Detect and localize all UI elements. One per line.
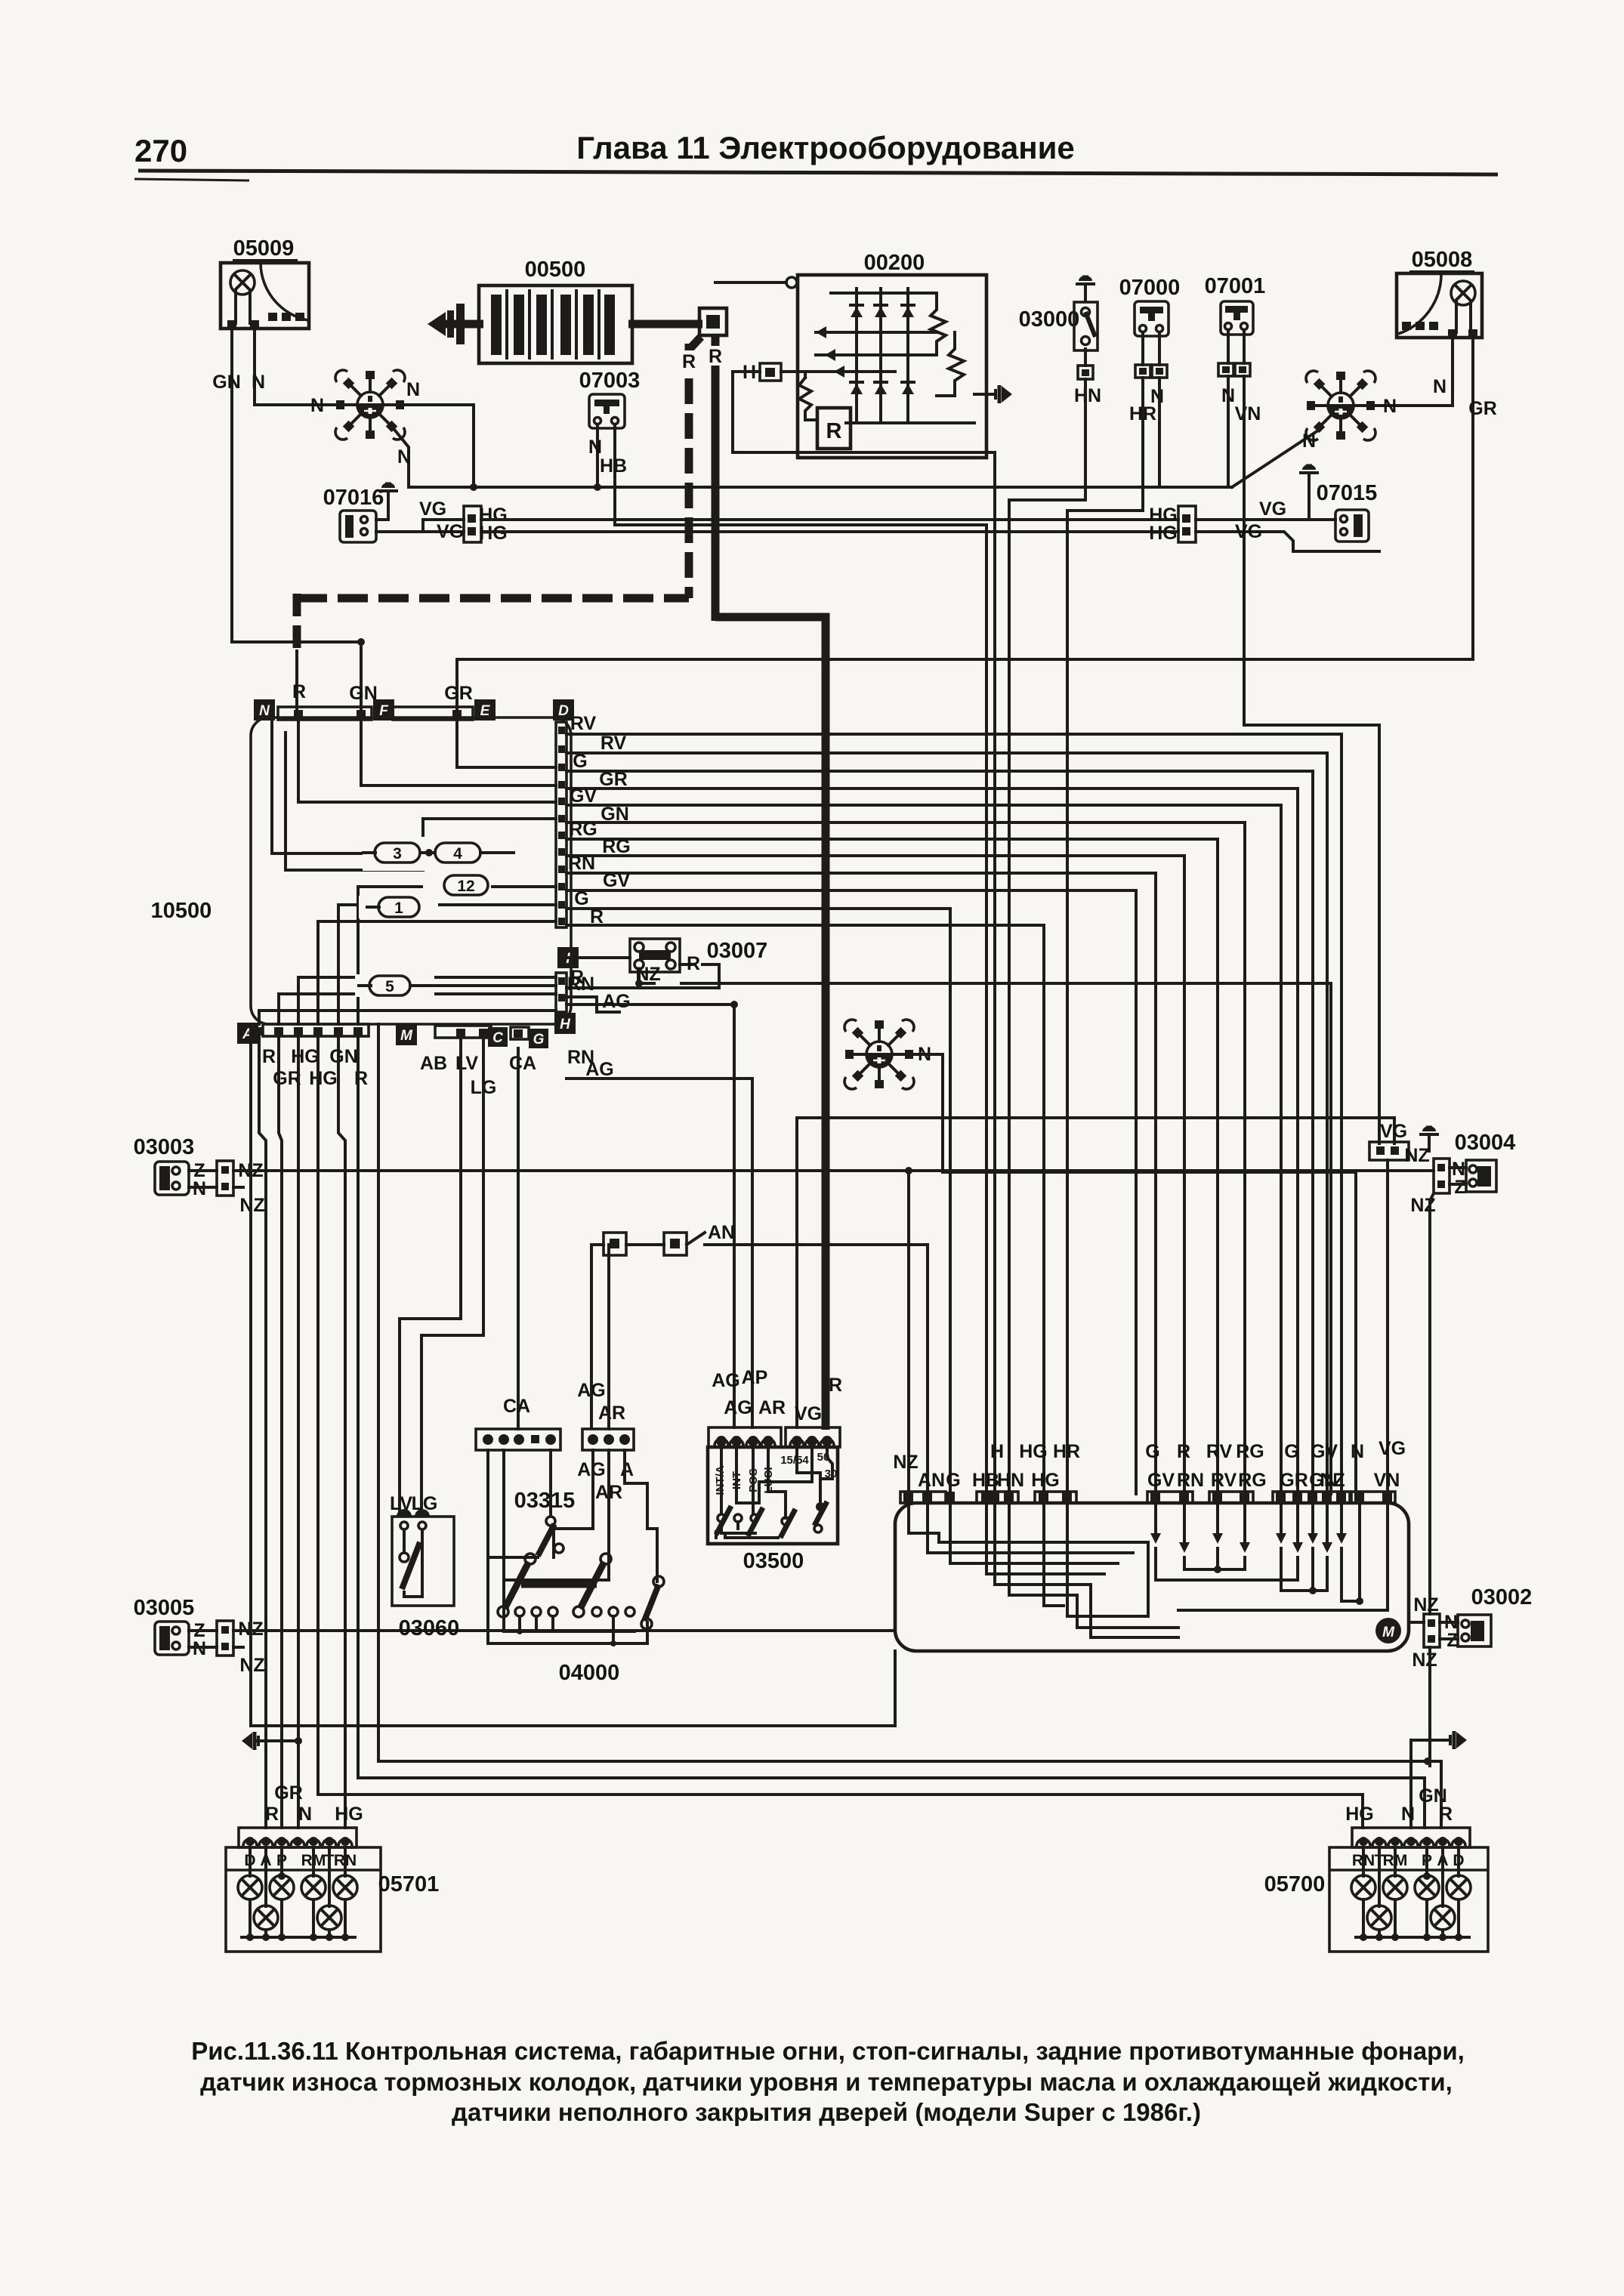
internal wires from top pins	[298, 722, 556, 802]
svg-text:LV: LV	[455, 1053, 478, 1074]
svg-text:N: N	[310, 395, 324, 416]
svg-text:R: R	[709, 346, 722, 367]
svg-text:HG: HG	[1345, 1804, 1374, 1825]
svg-text:03000: 03000	[1019, 307, 1080, 332]
svg-text:03060: 03060	[399, 1616, 460, 1640]
VN wire down right to VG connector and module	[1244, 376, 1379, 1143]
svg-text:AN: AN	[708, 1222, 735, 1243]
main box	[708, 1447, 838, 1544]
svg-text:HG: HG	[335, 1804, 363, 1825]
svg-text:R: R	[262, 1046, 276, 1067]
long horizontal NZ to module corner	[251, 1024, 895, 1726]
svg-text:15/54: 15/54	[780, 1454, 809, 1467]
thick dashed R wire down-left	[690, 337, 701, 348]
svg-text:HG: HG	[1019, 1441, 1048, 1462]
svg-text:03004: 03004	[1455, 1131, 1516, 1155]
module internals: left group nested wires	[909, 1503, 1148, 1542]
long HG wires across page	[481, 518, 1178, 521]
wire GR	[567, 788, 1298, 1494]
box outline	[251, 717, 571, 1024]
wire R to module HG	[567, 925, 1044, 1494]
svg-text:07003: 07003	[579, 369, 641, 393]
svg-text:Глава 11 Электрооборудование: Глава 11 Электрооборудование	[576, 130, 1075, 165]
thick R wire bend right and long drop to 03500	[715, 617, 826, 1430]
svg-text:VN: VN	[1235, 403, 1261, 424]
svg-text:VG: VG	[1235, 521, 1262, 542]
svg-text:R: R	[687, 953, 700, 974]
svg-text:03005: 03005	[134, 1596, 195, 1620]
svg-text:AN: AN	[918, 1470, 945, 1491]
07001	[1205, 274, 1266, 424]
svg-text:3: 3	[393, 845, 402, 863]
svg-text:AG: AG	[577, 1380, 606, 1401]
svg-text:03007: 03007	[707, 939, 768, 963]
N wire to 05700 with chassis ground right	[1409, 1740, 1413, 1828]
07003 HB wire to module HB pin	[615, 424, 986, 1494]
svg-text:GV: GV	[570, 785, 597, 807]
svg-text:VG: VG	[1380, 1121, 1407, 1142]
svg-text:07000: 07000	[1119, 276, 1181, 300]
svg-text:GV: GV	[603, 870, 630, 891]
svg-text:RN: RN	[567, 1047, 594, 1068]
svg-text:AB: AB	[420, 1053, 447, 1074]
svg-text:HB: HB	[600, 455, 627, 477]
svg-text:N: N	[588, 437, 602, 458]
speed sensor cone symbol	[428, 304, 465, 344]
wire GN long to 05700	[358, 1036, 1425, 1828]
wire GV	[567, 805, 1281, 1494]
svg-text:R: R	[829, 1375, 842, 1396]
AG/AR connector	[577, 1380, 634, 1503]
svg-text:GN: GN	[601, 804, 629, 825]
07016 component	[323, 486, 384, 542]
svg-text:VG: VG	[1259, 498, 1286, 520]
R loop right of 03007	[680, 963, 695, 966]
field diodes left	[816, 331, 937, 334]
svg-text:G: G	[946, 1470, 960, 1491]
VG wires from 07016 to HG connector	[376, 520, 464, 532]
svg-text:GR: GR	[1280, 1470, 1308, 1491]
svg-text:00200: 00200	[864, 251, 925, 275]
HG/HG inline connector right + VG wires to 07015	[1178, 506, 1196, 542]
alternator 00200	[715, 251, 1012, 458]
right pin strip	[556, 722, 567, 927]
svg-text:G: G	[574, 888, 588, 909]
lamp (instrument cluster symbol) left	[335, 370, 405, 440]
wires below AG/AR into 04000	[591, 1450, 594, 1529]
connecting lines inside right part	[1184, 1557, 1245, 1569]
svg-text:GV: GV	[1311, 1441, 1338, 1462]
HG/HG inline connector left	[464, 506, 481, 542]
svg-text:AG: AG	[712, 1370, 740, 1391]
03005 brake pad sensor	[134, 1596, 265, 1676]
N wire from middle lamp to module	[915, 1054, 1356, 1494]
thick wire through 00500	[437, 320, 483, 329]
relay 03007	[567, 939, 767, 972]
H lever cluster	[505, 1562, 529, 1609]
svg-text:RG: RG	[1236, 1441, 1264, 1462]
thick solid R wire down	[712, 335, 720, 621]
svg-text:R: R	[1177, 1441, 1190, 1462]
svg-text:NZ: NZ	[1404, 1145, 1429, 1166]
svg-text:N: N	[406, 379, 420, 400]
instrument cluster 00500	[479, 258, 632, 363]
svg-text:5: 5	[385, 978, 394, 995]
svg-text:R: R	[590, 906, 604, 927]
NZ wire from 03005 to module left edge	[233, 1629, 895, 1632]
wire GN from 05009 down and right to 10500 F pin	[232, 329, 361, 719]
thick dashed bus	[297, 594, 689, 603]
wire N to 05701 with ground tee	[297, 1036, 300, 1828]
wire GR to 05701	[279, 1036, 282, 1828]
lamp symbol right	[1306, 371, 1375, 440]
switch 03000	[1019, 276, 1101, 406]
svg-text:NZ: NZ	[1413, 1594, 1438, 1616]
wire from lamp right to N bus	[406, 405, 474, 487]
svg-text:HB: HB	[972, 1470, 999, 1491]
svg-text:N: N	[1401, 1804, 1415, 1825]
internal nested wires from bottom pins	[259, 1011, 556, 1024]
internal contacts	[720, 1447, 723, 1514]
ground above 07016	[378, 483, 398, 508]
svg-text:GV: GV	[1147, 1470, 1175, 1491]
fuse ovals	[355, 837, 556, 997]
svg-text:07016: 07016	[323, 486, 384, 510]
svg-text:RV: RV	[1206, 1441, 1233, 1462]
wire R to 05701	[259, 1036, 266, 1828]
svg-text:RN: RN	[568, 853, 595, 874]
svg-text:N: N	[397, 446, 411, 468]
GR wire from 05008 down and far left to 10500 E pin	[457, 338, 1473, 719]
zigzag resistors right	[931, 293, 946, 355]
diodes up	[851, 307, 863, 317]
wire RG 2	[567, 856, 1184, 1494]
svg-text:G: G	[1145, 1441, 1159, 1462]
svg-text:GN: GN	[349, 683, 378, 704]
svg-text:HN: HN	[1074, 385, 1101, 406]
svg-text:GR: GR	[1468, 398, 1497, 419]
ignition switch 03500	[708, 1367, 842, 1573]
NZ wire from module to connector and down	[1409, 1621, 1424, 1624]
svg-text:Рис.11.36.11 Контрольная сист: Рис.11.36.11 Контрольная система, габари…	[191, 2037, 1465, 2065]
rear lamp cluster 05701	[226, 1828, 439, 1952]
svg-text:RN: RN	[567, 974, 594, 995]
NZ wire from 03007 to module NZ pin	[639, 969, 654, 983]
internal: three phase verticals	[855, 289, 858, 423]
wire N from 05009 to lamp	[255, 329, 335, 405]
svg-text:R: R	[1439, 1804, 1453, 1825]
module top pins: left group	[903, 1492, 1072, 1503]
VG vertical down to 03500	[795, 1118, 798, 1427]
svg-text:RV: RV	[1211, 1470, 1237, 1491]
svg-text:G: G	[1284, 1441, 1298, 1462]
svg-text:03315: 03315	[514, 1489, 576, 1513]
svg-text:RV: RV	[601, 733, 627, 754]
07001 N wire to bus	[1227, 376, 1230, 487]
svg-text:GR: GR	[444, 683, 473, 704]
NZ drop to module NZ pin	[907, 1171, 910, 1494]
HN wire to module	[1009, 379, 1085, 1494]
connector strips on top	[709, 1427, 781, 1447]
wire GN	[567, 822, 1245, 1494]
svg-text:R: R	[682, 351, 696, 372]
svg-text:AP: AP	[742, 1367, 768, 1388]
door switch block 04000	[488, 1529, 664, 1685]
svg-text:03002: 03002	[1471, 1585, 1533, 1609]
rear lamp cluster 05700	[1264, 1828, 1488, 1952]
svg-text:RG: RG	[602, 836, 631, 857]
03003 brake pad sensor	[134, 1135, 265, 1216]
svg-text:F: F	[379, 703, 389, 719]
CA wires from 10500 down to CA connector	[517, 1048, 520, 1429]
svg-text:R: R	[354, 1068, 368, 1089]
svg-text:12: 12	[457, 878, 474, 895]
AG wire lower from strip H to 03500	[567, 1079, 752, 1427]
svg-text:N: N	[298, 1804, 312, 1825]
svg-text:NZ: NZ	[893, 1452, 918, 1473]
regulator box R	[817, 408, 851, 449]
ground at right of 00200	[974, 393, 996, 396]
svg-text:AG: AG	[602, 991, 631, 1012]
07003 connector	[579, 369, 641, 428]
svg-text:Z: Z	[1454, 1177, 1465, 1198]
svg-text:HN: HN	[997, 1470, 1024, 1491]
svg-text:GN: GN	[212, 372, 241, 393]
wire diagonal from lamp lower-right to N bus	[392, 427, 409, 487]
svg-text:05700: 05700	[1264, 1872, 1326, 1896]
svg-text:RN: RN	[1177, 1470, 1204, 1491]
svg-text:AR: AR	[758, 1397, 786, 1418]
svg-text:датчик износа тормозных колодо: датчик износа тормозных колодок, датчики…	[200, 2068, 1453, 2096]
svg-text:07015: 07015	[1317, 481, 1378, 505]
headlamp unit 05008	[1397, 248, 1482, 338]
07003 N wire	[596, 424, 599, 487]
wire G to module	[567, 909, 950, 1494]
svg-text:N: N	[1433, 376, 1446, 397]
svg-text:N: N	[259, 703, 270, 719]
oil level switch 03060	[390, 1493, 459, 1640]
module internals: right group arrows	[1150, 1503, 1388, 1610]
svg-text:A: A	[620, 1459, 634, 1480]
wire RV 2	[567, 753, 1327, 1494]
svg-text:05701: 05701	[378, 1872, 440, 1896]
wire RG	[567, 839, 1218, 1494]
svg-text:C: C	[492, 1030, 503, 1046]
svg-text:M: M	[400, 1028, 413, 1044]
motor symbol M	[1375, 1618, 1401, 1643]
VG inline connector right	[1369, 1142, 1409, 1160]
svg-text:VG: VG	[1379, 1438, 1406, 1459]
svg-text:N: N	[1302, 430, 1316, 452]
AG wire from strip to 03500	[567, 1003, 625, 1006]
07000 N wire to bus / HR wire to module	[1158, 378, 1161, 487]
svg-text:R: R	[826, 419, 842, 443]
hand brake switch 03315	[514, 1489, 576, 1556]
svg-text:00500: 00500	[525, 258, 586, 282]
top pin slots	[278, 707, 372, 720]
svg-text:HG: HG	[291, 1046, 320, 1067]
square connector after 00500	[699, 308, 727, 335]
VG horizontal wire	[797, 1118, 1394, 1143]
svg-text:05009: 05009	[233, 236, 295, 261]
wire RN	[567, 873, 1156, 1494]
svg-text:VG: VG	[419, 498, 446, 520]
svg-text:HG: HG	[1149, 523, 1178, 544]
svg-text:G: G	[533, 1032, 545, 1048]
svg-text:H: H	[560, 1017, 571, 1032]
svg-text:270: 270	[134, 133, 187, 168]
svg-text:N: N	[1351, 1441, 1364, 1462]
svg-text:07001: 07001	[1205, 274, 1266, 298]
wire GV 2	[567, 890, 1136, 1494]
top pin blocks N F E D	[254, 699, 275, 721]
module top pins: right group	[1150, 1492, 1392, 1503]
svg-text:N: N	[1383, 396, 1397, 417]
wire R long to 05700	[378, 1024, 1441, 1828]
H wire from 00200 left down to module	[733, 372, 995, 1494]
svg-text:H: H	[990, 1441, 1004, 1462]
svg-text:AR: AR	[598, 1403, 625, 1424]
N bus horizontal	[409, 486, 1232, 489]
wire HG to 05701	[338, 1036, 345, 1828]
svg-text:CA: CA	[503, 1396, 530, 1417]
svg-text:NZ: NZ	[1412, 1649, 1437, 1671]
wires below CA connector	[488, 1450, 538, 1557]
svg-text:NZ: NZ	[1320, 1470, 1345, 1491]
svg-text:03500: 03500	[743, 1549, 804, 1573]
svg-text:N: N	[252, 372, 265, 393]
svg-text:1: 1	[394, 900, 403, 917]
right lever	[644, 1585, 659, 1621]
svg-text:AG: AG	[724, 1397, 752, 1418]
ground near 03004	[1419, 1126, 1439, 1151]
svg-text:R: R	[292, 681, 306, 702]
wire RV	[567, 734, 1341, 1494]
07015	[1299, 464, 1377, 542]
svg-text:датчики неполного закрытия две: датчики неполного закрытия дверей (модел…	[452, 2098, 1201, 2126]
svg-text:RV: RV	[570, 713, 597, 734]
svg-text:05008: 05008	[1412, 248, 1473, 272]
N wire from 05008 to lamp	[1376, 338, 1453, 406]
svg-text:VN: VN	[1374, 1470, 1400, 1491]
svg-text:G: G	[573, 751, 587, 772]
svg-text:VG: VG	[437, 521, 464, 542]
svg-text:10500: 10500	[151, 899, 212, 923]
middle lamp symbol	[844, 1020, 914, 1089]
wire HG long to 05700	[318, 1036, 1363, 1828]
svg-text:HG: HG	[309, 1068, 338, 1089]
svg-text:M: M	[1382, 1625, 1395, 1640]
header rule	[138, 171, 1498, 174]
RN short wire	[567, 995, 597, 998]
svg-text:D: D	[558, 703, 569, 719]
svg-text:GR: GR	[599, 769, 628, 790]
svg-text:HR: HR	[1053, 1441, 1080, 1462]
long NZ wire from 03003 to right	[233, 1169, 1434, 1172]
svg-text:03003: 03003	[134, 1135, 195, 1159]
AB wire from 10500 to 03060 LV	[400, 1038, 461, 1514]
svg-text:4: 4	[453, 845, 462, 863]
svg-text:RG: RG	[569, 819, 597, 840]
svg-text:R: R	[265, 1804, 279, 1825]
svg-text:E: E	[480, 703, 491, 719]
svg-text:GN: GN	[329, 1046, 358, 1067]
07000	[1119, 276, 1181, 424]
wire G	[567, 771, 1313, 1494]
CA connector	[476, 1396, 560, 1450]
bottom pin blocks	[237, 1023, 258, 1044]
AG wire from AN connector down to AG/AR connector	[591, 1245, 604, 1427]
svg-text:04000: 04000	[559, 1661, 620, 1685]
headlamp unit 05009	[221, 236, 309, 329]
AN inline connectors	[604, 1222, 928, 1494]
svg-text:RG: RG	[1238, 1470, 1267, 1491]
svg-text:HG: HG	[1031, 1470, 1060, 1491]
lamp right diag to N bus	[1232, 429, 1320, 487]
03004	[1404, 1131, 1515, 1614]
AR wire from above	[607, 1245, 610, 1429]
svg-text:VG: VG	[795, 1403, 822, 1424]
svg-text:CA: CA	[509, 1053, 536, 1074]
LV wire from 10500 to 03060 LG	[421, 1038, 483, 1514]
